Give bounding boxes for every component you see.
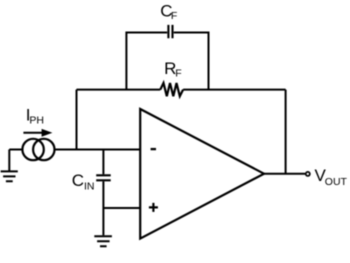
svg-text:OUT: OUT <box>325 176 348 188</box>
svg-text:F: F <box>175 67 181 79</box>
svg-text:IN: IN <box>84 180 95 192</box>
svg-text:PH: PH <box>29 115 44 127</box>
svg-text:F: F <box>171 10 177 22</box>
svg-text:C: C <box>72 171 84 190</box>
